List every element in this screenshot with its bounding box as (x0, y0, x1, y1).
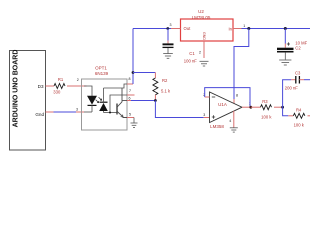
svg-text:Gnd: Gnd (35, 112, 44, 117)
wire feedback pin2 loop (205, 96, 210, 98)
svg-text:C2: C2 (295, 46, 301, 51)
wire op-amp V+ supply (234, 29, 249, 100)
opto internal pin7 wire (110, 95, 127, 113)
wire 9V rail right (242, 28, 311, 30)
pin 3 out stub (171, 28, 181, 30)
wire R1 to opto pin2 (67, 85, 87, 87)
svg-text:5: 5 (129, 113, 131, 117)
wire to R2 top (133, 72, 155, 74)
pin 7 stub dangling (127, 94, 135, 96)
pin 5 stub (127, 117, 134, 119)
wire C3 to right edge (304, 79, 310, 81)
svg-text:8: 8 (129, 77, 131, 81)
junction C1 tap (166, 27, 169, 30)
arduino board connector box (10, 50, 46, 150)
opto internal wire pin2 to LED (84, 86, 92, 96)
resistor R4 (288, 108, 310, 128)
opto internal wire pin3 (84, 111, 92, 113)
svg-text:U1A: U1A (218, 102, 227, 107)
ground at opto pin5 (131, 118, 138, 128)
svg-text:3: 3 (76, 108, 78, 112)
svg-text:C1: C1 (189, 51, 195, 56)
junction supply tap (247, 27, 250, 30)
wire junction down and to op-amp pin3 (155, 101, 203, 118)
ground at C1 (163, 54, 173, 59)
wire opto pin6 to R2 bottom junction (131, 100, 155, 102)
resistor R1 (53, 77, 65, 95)
svg-text:5.1 k: 5.1 k (161, 89, 171, 94)
svg-text:R1: R1 (58, 77, 64, 82)
wire up to C3 (283, 80, 291, 108)
svg-text:LM358: LM358 (210, 124, 224, 129)
svg-text:330: 330 (53, 90, 61, 95)
wire +5V top rail to regulator out (133, 28, 171, 30)
wire down to R4 (283, 107, 289, 116)
junction output node (249, 106, 252, 109)
capacitor C3 (285, 70, 304, 90)
junction R2 tap (132, 71, 135, 74)
pin 8 stub (127, 83, 133, 85)
svg-text:100 k: 100 k (261, 115, 272, 120)
svg-text:3: 3 (170, 23, 172, 27)
svg-text:7: 7 (129, 89, 131, 93)
svg-text:8: 8 (236, 94, 238, 98)
junction R3 right node (281, 106, 284, 109)
svg-text:100 k: 100 k (294, 123, 305, 128)
pin 4 stub (233, 111, 235, 128)
resistor R3 (251, 99, 283, 120)
pin 6 stub (127, 100, 131, 102)
svg-text:R2: R2 (162, 78, 168, 83)
ground at regulator pin2 (200, 61, 209, 66)
svg-text:2: 2 (77, 78, 79, 82)
svg-text:U2: U2 (198, 9, 204, 14)
junction C2 tap (284, 27, 287, 30)
wire Gnd stub (46, 111, 54, 113)
wire Gnd to opto pin3 (54, 111, 77, 113)
op-amp U1A LM358 (210, 92, 243, 129)
ground at op-amp pin4 (230, 128, 238, 132)
wire +5V vertical to opto pin8 (132, 29, 134, 85)
svg-text:GND: GND (202, 32, 206, 40)
opto transistor Q (117, 88, 127, 118)
resistor R2 (153, 73, 171, 101)
capacitor C2 electrolytic (277, 29, 308, 60)
svg-text:D3: D3 (38, 84, 44, 89)
svg-text:C3: C3 (295, 70, 301, 75)
wire output stub (242, 106, 251, 108)
svg-text:6N139: 6N139 (95, 71, 109, 76)
svg-text:3: 3 (203, 113, 205, 117)
svg-text:OPT1: OPT1 (95, 65, 107, 70)
capacitor C1 (163, 29, 198, 64)
ground at C2 (279, 60, 291, 65)
wire D3 stub (46, 85, 55, 87)
light arrows (96, 97, 102, 103)
opto internal top rail (104, 84, 128, 88)
opto photodiode (99, 88, 108, 113)
svg-text:1: 1 (243, 24, 245, 28)
voltage regulator U2 LM78L05 (181, 9, 234, 41)
svg-text:4: 4 (229, 119, 231, 123)
svg-text:2: 2 (199, 50, 201, 54)
junction R2 bottom (154, 99, 157, 102)
svg-text:LM78L05: LM78L05 (192, 15, 211, 20)
svg-text:ARDUINO UNO BOARD: ARDUINO UNO BOARD (13, 50, 20, 128)
svg-text:200 nF: 200 nF (285, 86, 298, 91)
opto LED diode (87, 96, 97, 112)
junction base node (109, 112, 111, 114)
optocoupler OPT1 6N139 box (82, 65, 128, 130)
svg-text:100 nF: 100 nF (184, 58, 197, 63)
svg-text:Out: Out (184, 26, 192, 31)
svg-text:R4: R4 (296, 108, 302, 113)
opto internal base wire (104, 112, 118, 114)
pin 1 in stub (233, 28, 242, 30)
pin 2 gnd stub (203, 41, 205, 58)
svg-text:R3: R3 (262, 99, 268, 104)
